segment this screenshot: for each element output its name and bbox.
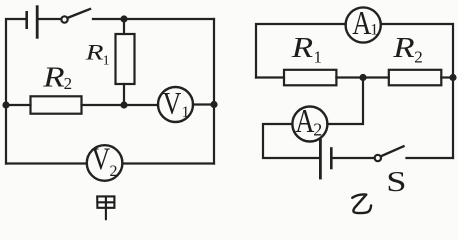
svg-text:1: 1 <box>314 47 323 66</box>
svg-text:2: 2 <box>313 120 322 140</box>
svg-text:V: V <box>163 86 182 121</box>
svg-text:R: R <box>42 62 64 93</box>
svg-text:2: 2 <box>110 163 118 180</box>
svg-text:2: 2 <box>64 74 73 93</box>
svg-text:1: 1 <box>182 104 190 121</box>
svg-text:A: A <box>352 4 371 42</box>
svg-text:R: R <box>85 40 104 65</box>
svg-text:R: R <box>291 32 313 63</box>
svg-text:V: V <box>92 142 111 177</box>
svg-text:1: 1 <box>103 54 110 69</box>
svg-text:1: 1 <box>370 22 378 39</box>
svg-text:A: A <box>295 102 314 140</box>
svg-text:S: S <box>386 167 406 198</box>
svg-text:R: R <box>392 32 414 63</box>
svg-text:2: 2 <box>414 47 423 66</box>
